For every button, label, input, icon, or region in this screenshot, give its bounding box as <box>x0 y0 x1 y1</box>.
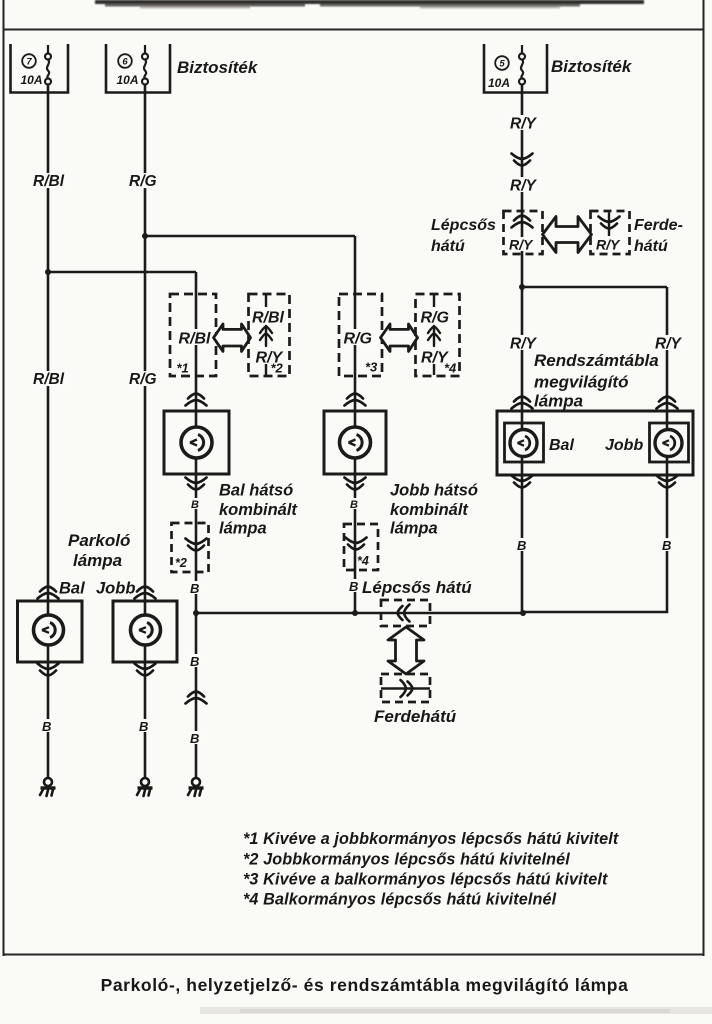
svg-text:Ferde-: Ferde- <box>634 217 683 234</box>
wire below right parking lamp to ground <box>144 645 147 778</box>
svg-text:Lépcsős: Lépcsős <box>431 217 496 234</box>
wire R/Y vertical from fuse 5 <box>521 84 524 430</box>
lamp right rear combination <box>324 411 386 474</box>
svg-text:R/Y: R/Y <box>510 116 538 133</box>
label B below right rear lamp <box>349 498 359 511</box>
wire right rear lamp feed vertical <box>354 236 357 427</box>
svg-text:Jobb: Jobb <box>96 580 135 598</box>
svg-text:10A: 10A <box>21 73 43 87</box>
svg-text:B: B <box>190 654 199 669</box>
lamp parking left <box>18 601 83 662</box>
svg-text:R/G: R/G <box>421 310 449 327</box>
svg-text:Jobb hátsó: Jobb hátsó <box>390 482 478 500</box>
alternate box *1 R/Bl <box>170 294 216 376</box>
label Jobb hátsó kombinált lámpa <box>390 482 478 538</box>
svg-text:10A: 10A <box>488 76 510 90</box>
connector below right rear lamp <box>345 478 366 490</box>
svg-text:Ferdehátú: Ferdehátú <box>374 707 457 726</box>
svg-text:R/Y: R/Y <box>509 237 534 253</box>
svg-text:kombinált: kombinált <box>219 501 298 519</box>
connector below parking lamp left <box>38 664 59 676</box>
fuse 5 10A <box>484 44 547 93</box>
svg-text:Parkoló-, helyzetjelző- és ren: Parkoló-, helyzetjelző- és rendszámtábla… <box>101 975 629 995</box>
wire left rear lamp feed vertical <box>195 272 198 427</box>
label B below bus <box>189 654 201 669</box>
svg-text:B: B <box>190 731 199 746</box>
lamp left rear combination <box>164 411 229 474</box>
svg-text:B: B <box>42 719 51 734</box>
wire branch R/G horizontal <box>145 235 355 238</box>
svg-text:Rendszámtábla: Rendszámtábla <box>534 351 659 370</box>
svg-text:7: 7 <box>26 57 32 68</box>
wire below right rear lamp to bus <box>354 458 357 613</box>
svg-text:B: B <box>662 538 671 553</box>
svg-text:Biztosíték: Biztosíték <box>177 58 259 77</box>
svg-text:B: B <box>190 581 199 596</box>
connector below plate lamp right <box>657 476 678 488</box>
ground left <box>40 778 56 796</box>
connector box Lépcsős on bus <box>381 600 430 626</box>
double arrow between *1 and *2 <box>214 324 251 351</box>
svg-text:R/Y: R/Y <box>596 237 621 253</box>
wire below left parking lamp to ground <box>47 645 50 778</box>
double arrow Lépcsős/Ferde <box>543 217 592 253</box>
svg-text:Bal hátsó: Bal hátsó <box>219 482 293 500</box>
label B above ground left <box>41 719 53 734</box>
label B above bus left <box>189 581 201 596</box>
svg-text:hátú: hátú <box>634 238 668 255</box>
wire branch R/Bl horizontal <box>48 271 196 274</box>
junction node bus middle <box>352 610 358 616</box>
svg-text:kombinált: kombinált <box>390 501 469 519</box>
svg-text:6: 6 <box>122 57 128 68</box>
svg-text:*3 Kivéve a balkormányos lépcs: *3 Kivéve a balkormányos lépcsős hátú ki… <box>243 870 608 888</box>
wire below left rear lamp down to ground <box>195 458 198 778</box>
wire ground bus horizontal <box>196 612 523 615</box>
svg-text:Bal: Bal <box>59 580 85 598</box>
connector above parking lamp right <box>135 587 156 599</box>
alternate connector box *2 lower <box>172 523 209 572</box>
connector below plate lamp left <box>512 476 533 488</box>
svg-text:R/Bl: R/Bl <box>33 371 65 388</box>
lamp plate right (Jobb) <box>650 423 689 462</box>
svg-text:B: B <box>517 538 526 553</box>
label B above ground right <box>189 731 201 746</box>
junction node on R/Y wire <box>519 284 525 290</box>
connector box Ferdehátú alternative bus <box>381 674 430 702</box>
connector below left rear lamp <box>186 478 207 490</box>
label B above ground middle <box>138 719 150 734</box>
svg-text:Lépcsős hátú: Lépcsős hátú <box>362 578 472 597</box>
label R/Y above connector box <box>508 177 538 195</box>
connector above plate lamp right <box>657 397 678 409</box>
junction node on R/G wire <box>142 233 148 239</box>
svg-text:10A: 10A <box>117 73 139 87</box>
connector above right rear lamp <box>345 394 366 406</box>
svg-text:*4: *4 <box>357 554 369 568</box>
label Bal hátsó kombinált lámpa <box>219 482 298 538</box>
wire branch R/Y horizontal <box>522 286 667 289</box>
alternate box *2 R/Bl-R/Y splice <box>249 294 290 376</box>
label B plate left <box>516 538 528 553</box>
label R/Bl lower <box>32 371 68 388</box>
svg-text:Jobb: Jobb <box>605 437 643 454</box>
svg-text:*2: *2 <box>271 361 284 376</box>
svg-text:B: B <box>349 579 358 594</box>
svg-text:*2 Jobbkormányos lépcsős hátú: *2 Jobbkormányos lépcsős hátú kivitelnél <box>243 850 570 868</box>
connector below parking lamp right <box>135 664 156 676</box>
lamp plate left (Bal) <box>505 423 544 462</box>
alternate box *3 R/G <box>339 294 382 376</box>
svg-text:R/G: R/G <box>344 331 372 348</box>
connector on R/Y below fuse <box>512 154 533 166</box>
svg-text:R/Bl: R/Bl <box>179 331 212 348</box>
label Rendszámtábla megvilágító lámpa <box>534 351 659 411</box>
svg-text:R/Bl: R/Bl <box>33 173 65 190</box>
connector box Lépcsős hátú (R/Y) <box>504 211 543 254</box>
alternate box *4 R/G-R/Y splice <box>416 294 460 376</box>
junction node bus left <box>193 610 199 616</box>
svg-text:*3: *3 <box>365 360 378 375</box>
ground middle <box>137 778 153 796</box>
label Parkoló lámpa <box>68 531 130 570</box>
connector above parking lamp left <box>38 587 59 599</box>
svg-text:B: B <box>139 719 148 734</box>
svg-text:lámpa: lámpa <box>534 392 583 411</box>
svg-text:hátú: hátú <box>431 238 465 255</box>
fuse 7 10A <box>11 44 69 93</box>
svg-text:*1: *1 <box>177 361 189 376</box>
label R/Y plate left <box>508 335 538 353</box>
connector on ground wire <box>186 692 207 704</box>
wire right plate lamp feed vertical <box>666 287 669 430</box>
svg-text:B: B <box>191 499 199 511</box>
ground right <box>188 778 204 796</box>
connector above left rear lamp <box>186 394 207 406</box>
svg-text:Biztosíték: Biztosíték <box>551 57 633 76</box>
label B below left rear lamp <box>190 498 200 511</box>
lamp parking right <box>113 601 177 662</box>
scan artifact: dark torn strip top <box>95 0 644 9</box>
wire R/G vertical from fuse 6 <box>144 84 147 615</box>
svg-text:lámpa: lámpa <box>219 520 267 538</box>
svg-text:Bal: Bal <box>549 437 574 454</box>
svg-text:lámpa: lámpa <box>390 520 438 538</box>
wire below right plate lamp <box>523 457 667 613</box>
svg-text:R/G: R/G <box>129 173 157 190</box>
connector above plate lamp left <box>512 397 533 409</box>
svg-text:*4 Balkormányos lépcsős hátú k: *4 Balkormányos lépcsős hátú kivitelnél <box>243 890 557 908</box>
scan artifact: faint strip bottom <box>200 1007 712 1014</box>
label R/G lower <box>128 371 160 388</box>
label R/Y below fuse <box>508 115 538 133</box>
svg-text:*2: *2 <box>175 556 187 570</box>
svg-text:*4: *4 <box>444 361 457 376</box>
label R/G upper <box>128 173 160 190</box>
fuse 6 10A <box>106 44 170 93</box>
svg-text:Parkoló: Parkoló <box>68 531 130 550</box>
svg-text:R/Bl: R/Bl <box>252 310 285 327</box>
junction node bus right <box>520 610 526 616</box>
svg-text:*1 Kivéve a jobbkormányos lépc: *1 Kivéve a jobbkormányos lépcsős hátú k… <box>243 830 619 848</box>
connector box Ferdehátú (R/Y) <box>591 211 630 254</box>
svg-text:R/Y: R/Y <box>510 178 538 195</box>
wire R/Bl vertical from fuse 7 <box>47 84 50 615</box>
label B plate right <box>661 538 673 553</box>
label R/Bl upper <box>32 173 68 190</box>
svg-text:B: B <box>350 499 358 511</box>
svg-text:R/Y: R/Y <box>510 336 538 353</box>
wire below left plate lamp to bus <box>521 457 524 614</box>
svg-text:R/Y: R/Y <box>655 336 683 353</box>
svg-text:lámpa: lámpa <box>73 551 122 570</box>
label R/Y plate right <box>653 335 683 353</box>
license plate lamp assembly box <box>497 411 693 475</box>
double arrow between *3 and *4 <box>381 324 418 351</box>
svg-text:5: 5 <box>499 59 505 70</box>
svg-text:R/G: R/G <box>129 371 157 388</box>
double arrow vertical bus <box>388 627 424 674</box>
junction node on R/Bl wire <box>45 269 51 275</box>
svg-text:megvilágító: megvilágító <box>534 373 628 392</box>
label B above bus middle <box>348 579 360 594</box>
alternate connector box *4 lower <box>344 524 378 570</box>
